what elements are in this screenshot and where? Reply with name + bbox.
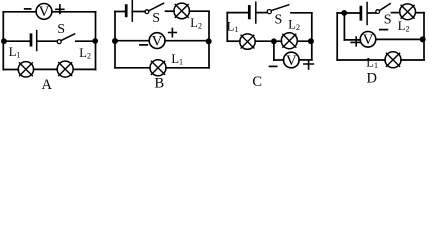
battery (C): long thin positive plate [255, 2, 257, 23]
wire: A bottom left segment [3, 69, 18, 71]
wire: A right rail [95, 12, 97, 70]
node: A left junction [1, 38, 7, 44]
label: minus at B voltmeter [140, 44, 147, 46]
battery (C): short thick negative plate [248, 6, 251, 18]
switch S (D): blade [379, 4, 390, 11]
voltmeter V (A) [36, 3, 52, 20]
wire: C voltmeter branch left vertical [273, 41, 275, 60]
wire: B middle left segment [115, 40, 149, 42]
svg-text:L1: L1 [366, 56, 378, 71]
svg-text:B: B [155, 76, 165, 92]
voltmeter V (B) [149, 33, 165, 50]
switch S (A): blade [61, 34, 75, 41]
lamp L1 (C) [240, 34, 255, 49]
node: D top junction [341, 10, 347, 16]
wire: C between lamps [255, 40, 281, 42]
voltmeter V (C) [284, 52, 300, 69]
wire: C right rail down to voltmeter branch [311, 13, 313, 60]
wire: B bottom right segment [166, 67, 209, 69]
svg-text:S: S [152, 11, 160, 26]
node: C left voltmeter tap [271, 38, 277, 44]
wire: D voltmeter to right rail [376, 38, 424, 40]
svg-text:V: V [286, 53, 297, 69]
lamp L2 (C) [281, 33, 297, 49]
svg-text:S: S [384, 12, 392, 27]
wire: B top left segment [115, 11, 124, 13]
battery (A): short thick negative plate [30, 35, 33, 46]
wire: A bottom middle segment [34, 68, 58, 70]
wire: A battery to switch [37, 40, 57, 42]
wire: D voltmeter branch vertical [343, 13, 345, 40]
lamp L2 (A) [57, 61, 73, 77]
lamp L1 (D) [385, 52, 401, 68]
wire: A middle left segment [3, 40, 29, 42]
battery (B): long thin positive plate [131, 1, 133, 21]
lamp L2 (D) [400, 4, 416, 20]
wire: C voltmeter branch right stub [299, 59, 312, 61]
wire: C battery to switch [257, 12, 268, 14]
wire: D voltmeter branch horizontal to voltmeter [344, 39, 360, 41]
svg-text:L1: L1 [227, 19, 239, 34]
switch S (A): pivot [57, 40, 61, 44]
wire: B middle right segment [165, 40, 209, 42]
label: minus at C voltmeter [270, 65, 277, 67]
wire: B lamp L2 to right rail [190, 10, 210, 12]
svg-text:A: A [42, 77, 53, 93]
wire: D top left segment [337, 12, 359, 14]
wire: A left rail [2, 12, 4, 70]
wire: B bottom left segment [115, 67, 150, 69]
wire: A switch to right rail [76, 40, 96, 42]
wire: D bottom left segment [337, 59, 385, 61]
svg-text:C: C [252, 74, 262, 90]
switch S (C): blade [271, 5, 289, 11]
svg-text:L2: L2 [398, 19, 410, 34]
node: B left junction [112, 38, 118, 44]
wire: C top left segment [227, 12, 248, 14]
svg-text:S: S [275, 13, 283, 28]
wire: A top left segment [3, 11, 36, 13]
wire: C left rail [226, 13, 228, 42]
switch S (C): pivot [267, 10, 271, 14]
switch S (D): pivot [376, 10, 380, 14]
wire: B right rail [208, 12, 210, 68]
label: plus at A voltmeter [56, 5, 64, 14]
wire: B left rail [114, 12, 116, 68]
wire: D right rail [423, 13, 425, 60]
wire: C switch to right rail [291, 12, 312, 14]
wire: D switch to lamp L2 [392, 12, 400, 14]
svg-text:L1: L1 [171, 52, 183, 67]
svg-text:L2: L2 [288, 17, 300, 32]
node: B right junction [206, 38, 212, 44]
svg-text:V: V [363, 32, 374, 48]
battery (A): long thin positive plate [36, 31, 38, 51]
label: plus at D voltmeter [351, 37, 360, 46]
svg-text:V: V [39, 4, 50, 20]
svg-text:L1: L1 [9, 45, 21, 60]
svg-text:L2: L2 [79, 46, 91, 61]
lamp L1 (A) [18, 62, 33, 77]
label: plus at C voltmeter [304, 61, 314, 69]
wire: B battery to switch [132, 11, 145, 13]
wire: C voltmeter branch left stub [274, 59, 284, 61]
svg-text:D: D [367, 71, 377, 87]
wire: C middle left segment [227, 40, 240, 42]
label: minus at D voltmeter [380, 29, 388, 31]
label: plus at B voltmeter [169, 28, 177, 36]
battery (B): short thick negative plate [125, 6, 128, 16]
lamp L2 (B) [174, 3, 190, 19]
node: C right voltmeter tap [308, 38, 314, 44]
wire: B switch to lamp L2 [166, 10, 175, 12]
battery (D): short thick negative plate [360, 7, 363, 19]
wire: A bottom right segment [73, 68, 95, 70]
voltmeter V (D) [360, 32, 376, 49]
switch S (B): blade [149, 3, 164, 11]
switch S (B): pivot [145, 10, 149, 14]
lamp L1 (B) [150, 60, 166, 76]
wire: D bottom right segment [401, 59, 424, 61]
wire: D left rail [336, 13, 338, 60]
svg-text:S: S [57, 22, 65, 37]
svg-text:V: V [152, 33, 163, 49]
battery (D): long thin positive plate [366, 3, 368, 25]
svg-text:L2: L2 [190, 16, 202, 31]
wire: A top right segment [52, 11, 96, 13]
label: minus at A voltmeter [25, 8, 31, 10]
node: A right junction [92, 38, 98, 44]
wire: D battery to switch [368, 12, 376, 14]
wire: D lamp L2 to right rail [416, 12, 425, 14]
node: D right junction [420, 36, 426, 42]
wire: C lamp L2 to right rail [297, 40, 312, 42]
